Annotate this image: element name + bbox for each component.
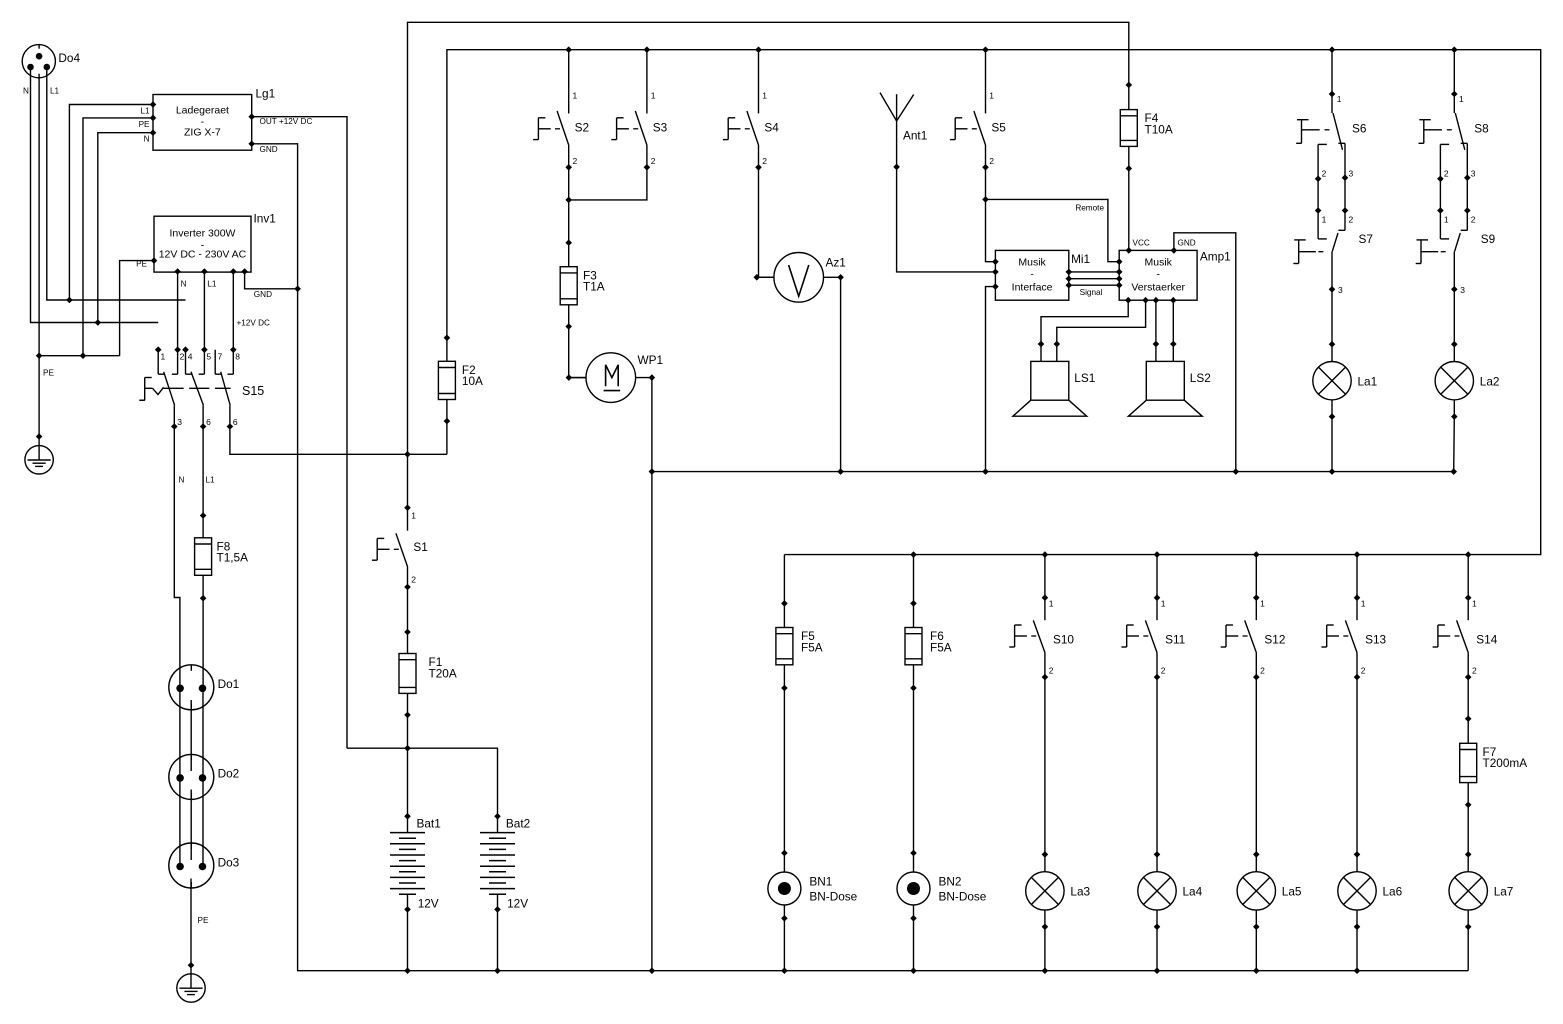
two-way switch S7 xyxy=(1293,232,1373,295)
svg-text:LS1: LS1 xyxy=(1074,371,1095,385)
svg-text:S6: S6 xyxy=(1352,122,1367,136)
svg-text:Verstaerker: Verstaerker xyxy=(1131,282,1185,294)
svg-text:2: 2 xyxy=(1471,215,1476,225)
svg-text:La1: La1 xyxy=(1358,374,1378,388)
wire PE: Do2 to Do3 xyxy=(190,790,192,861)
svg-text:La3: La3 xyxy=(1070,885,1090,899)
wire L1: S15 pin 6 down to F8 xyxy=(202,427,204,516)
svg-text:S9: S9 xyxy=(1481,232,1495,246)
svg-text:Musik: Musik xyxy=(1144,257,1172,269)
svg-text:6: 6 xyxy=(233,417,238,427)
svg-text:S4: S4 xyxy=(764,121,779,135)
svg-text:BN-Dose: BN-Dose xyxy=(939,890,987,904)
svg-text:La7: La7 xyxy=(1494,885,1514,899)
wire bus to S3 xyxy=(646,50,648,93)
wire Amp1 out 3 to LS2 left xyxy=(1153,300,1160,361)
svg-text:LS2: LS2 xyxy=(1190,371,1211,385)
svg-text:10A: 10A xyxy=(462,374,483,388)
svg-text:1: 1 xyxy=(1361,599,1366,609)
svg-text:La5: La5 xyxy=(1282,885,1302,899)
wire Inv1 L1 pin to S15 pin 5 xyxy=(203,272,205,350)
wire Lg1 GND to ground bus (bottom rail) xyxy=(252,144,1469,971)
socket Do1 xyxy=(169,665,239,710)
svg-text:PE: PE xyxy=(198,916,209,925)
svg-text:T1,5A: T1,5A xyxy=(217,551,249,565)
wire Lg1 L1 pin to L1 net xyxy=(69,105,153,301)
wire L1: Do1 through Do2 to Do3 xyxy=(202,687,204,865)
fuse F6 F5A xyxy=(905,600,952,691)
changeover switch S15 pole 2 (pins 4,5 - 6) xyxy=(182,346,211,429)
svg-text:BN-Dose: BN-Dose xyxy=(809,890,857,904)
svg-text:S15: S15 xyxy=(242,384,264,398)
voltmeter Az1 xyxy=(754,252,846,302)
svg-text:7: 7 xyxy=(218,352,223,362)
svg-text:Mi1: Mi1 xyxy=(1071,252,1090,266)
svg-text:BN2: BN2 xyxy=(939,875,962,889)
wire PE: Do4 down to earth symbol xyxy=(36,74,43,446)
svg-text:1: 1 xyxy=(1260,599,1265,609)
lamp La5 xyxy=(1237,851,1302,930)
wire +12V switched rail: F2 up, top bus, right edge down, lower bus xyxy=(447,50,1541,555)
switch S10 xyxy=(1009,594,1074,680)
svg-text:1: 1 xyxy=(989,91,994,101)
fuse F5 F5A xyxy=(776,600,823,691)
switch S11 xyxy=(1121,594,1185,680)
svg-text:PE: PE xyxy=(43,369,54,378)
wire F7 to La7 xyxy=(1467,805,1469,855)
junctions on ground bus xyxy=(404,967,1360,974)
svg-text:Amp1: Amp1 xyxy=(1200,250,1231,264)
svg-text:3: 3 xyxy=(1349,169,1354,179)
svg-text:2: 2 xyxy=(1260,666,1265,676)
label PE near earth xyxy=(43,369,54,378)
socket Do3 xyxy=(169,843,240,888)
svg-text:N: N xyxy=(181,280,187,289)
switch S2 xyxy=(533,91,589,171)
switch S3 xyxy=(611,91,667,171)
svg-text:L1: L1 xyxy=(50,86,60,95)
svg-text:1: 1 xyxy=(1459,94,1464,104)
label PE near bottom earth xyxy=(198,916,209,925)
junctions on top +12V bus xyxy=(565,46,1457,53)
water pump motor WP1 xyxy=(566,353,663,403)
battery Bat2 12V xyxy=(480,813,530,913)
svg-text:T200mA: T200mA xyxy=(1483,756,1528,770)
fuse F3 T1A xyxy=(560,239,605,329)
svg-text:N: N xyxy=(179,476,185,485)
svg-text:2: 2 xyxy=(573,156,578,166)
wire BN1 to ground bus xyxy=(783,918,785,970)
wire 0V return line with junctions xyxy=(649,468,1457,475)
wire bus to S8 xyxy=(1453,50,1455,94)
wire lower bus to S12 xyxy=(1255,555,1257,598)
svg-text:Signal: Signal xyxy=(1080,288,1103,297)
wire La5 to ground bus xyxy=(1255,927,1257,971)
svg-text:Ant1: Ant1 xyxy=(903,129,927,143)
svg-text:3: 3 xyxy=(1338,285,1343,295)
wire PE: Do1 to Do2 xyxy=(190,700,192,771)
wire to Bat1 + xyxy=(407,748,409,816)
lamp La6 xyxy=(1338,851,1403,930)
fuse F1 T20A xyxy=(399,629,457,719)
svg-text:F5A: F5A xyxy=(801,640,823,654)
wire Amp1 out 2 to LS1 right xyxy=(1054,300,1146,361)
wires Signal: Mi1 to Amp1 xyxy=(1069,269,1123,297)
wire Inv1 +12V DC pin to S15 pin 8 xyxy=(232,272,234,350)
svg-text:+12V DC: +12V DC xyxy=(237,319,271,328)
wire Inv1 N pin to S15 pin 2 xyxy=(177,272,179,350)
svg-text:2: 2 xyxy=(989,156,994,166)
svg-text:2: 2 xyxy=(1349,215,1354,225)
junctions on lower +12V bus xyxy=(910,551,1471,558)
wire BN2 to ground bus xyxy=(913,918,915,970)
svg-text:N: N xyxy=(23,86,29,95)
wire Lg1 N pin to N net xyxy=(98,133,153,323)
earth ground symbol PE (left) xyxy=(25,446,53,474)
loudspeaker LS2 xyxy=(1128,361,1210,416)
label VCC xyxy=(1133,239,1150,248)
wire F3 to motor WP1 xyxy=(569,327,587,378)
wire S5 pin 2 to Mi1, junction for Remote xyxy=(982,167,995,261)
label N wire from Do4 xyxy=(23,86,29,95)
svg-text:1: 1 xyxy=(1444,215,1449,225)
wire Amp1 GND up and down to 0V return xyxy=(1174,233,1236,472)
svg-text:4: 4 xyxy=(188,352,193,362)
wire Amp1 out 4 to LS2 right xyxy=(1170,300,1177,361)
svg-text:1: 1 xyxy=(573,91,578,101)
battery Bat1 12V xyxy=(390,813,441,913)
wire Inv1 PE pin to PE net xyxy=(120,261,154,356)
S15 manual actuator with latch and linkage xyxy=(139,378,264,401)
label L1 xyxy=(206,476,216,485)
svg-text:3: 3 xyxy=(1471,169,1476,179)
svg-text:S13: S13 xyxy=(1365,633,1386,647)
svg-text:S7: S7 xyxy=(1359,232,1373,246)
svg-text:2: 2 xyxy=(411,575,416,585)
wire bus to S5 xyxy=(985,50,987,93)
wire N: S15 pin 3 down to Do1 xyxy=(174,427,180,688)
wire battery + rail: Lg1 OUT junction to Bat1/Bat2 xyxy=(347,745,498,816)
wire S3 pin 2 to S2 branch xyxy=(569,167,647,200)
svg-text:BN1: BN1 xyxy=(809,875,832,889)
svg-text:Inv1: Inv1 xyxy=(254,212,276,226)
svg-text:1: 1 xyxy=(762,91,767,101)
svg-text:GND: GND xyxy=(260,145,278,154)
music amplifier box Amp1 xyxy=(1116,247,1231,303)
wire S4 pin 2 to voltmeter Az1 xyxy=(759,167,774,277)
lamp La2 xyxy=(1435,341,1499,420)
svg-text:6: 6 xyxy=(206,417,211,427)
svg-text:Lg1: Lg1 xyxy=(256,87,276,101)
wire bus to S6 xyxy=(1331,50,1333,94)
svg-text:2: 2 xyxy=(651,156,656,166)
wire Ant1 to Mi1 xyxy=(897,167,996,272)
wire bus to S2 xyxy=(568,50,570,93)
wire F5 to BN1 xyxy=(783,688,785,853)
svg-text:2: 2 xyxy=(180,352,185,362)
wire S11 pin 2 to La4 xyxy=(1156,677,1158,854)
svg-text:8: 8 xyxy=(235,352,240,362)
two-way switch S8 xyxy=(1419,91,1490,150)
wire lower bus to S11 xyxy=(1156,555,1158,598)
fuse F4 T10A xyxy=(1120,82,1173,172)
svg-text:Musik: Musik xyxy=(1018,257,1046,269)
wire L1: Do4 to S15 pin 4, junction with Lg1 L1 xyxy=(47,67,186,303)
mains inlet plug Do4 xyxy=(22,45,80,78)
svg-text:-: - xyxy=(1156,269,1160,281)
svg-text:S3: S3 xyxy=(653,121,668,135)
wire PE: Do3 down to bottom earth, junction xyxy=(188,879,195,974)
svg-text:T1A: T1A xyxy=(583,280,605,294)
wire La3 to ground bus xyxy=(1044,927,1046,971)
wire lower bus to F5 xyxy=(783,555,785,604)
switch S12 xyxy=(1221,594,1286,680)
svg-text:S11: S11 xyxy=(1165,633,1185,647)
wire Inv1 GND pin to GND rail, junction xyxy=(245,272,301,293)
two-way switch S6 xyxy=(1296,91,1367,150)
wire +12V node down to S1 pin 1 xyxy=(407,454,409,507)
svg-text:Bat1: Bat1 xyxy=(417,817,441,831)
wire N: Do4 to S15 pin 1, junction with Lg1 N xyxy=(31,67,159,326)
wire La4 to ground bus xyxy=(1156,927,1158,971)
svg-text:ZIG X-7: ZIG X-7 xyxy=(184,126,221,138)
wire Amp1 out 1 to LS1 left xyxy=(1038,300,1129,361)
wires S6 pins 2,3 to S7 pins 1,2 xyxy=(1315,143,1354,239)
svg-text:S12: S12 xyxy=(1264,633,1285,647)
svg-text:3: 3 xyxy=(177,417,182,427)
wire F4 to Amp1 VCC xyxy=(1128,169,1130,251)
svg-text:T20A: T20A xyxy=(429,666,457,680)
wire S10 pin 2 to La3 xyxy=(1044,677,1046,854)
socket Do2 xyxy=(169,754,239,799)
switch S1 xyxy=(372,504,428,590)
wire lower bus to S14 xyxy=(1467,555,1469,598)
svg-text:2: 2 xyxy=(1161,666,1166,676)
svg-text:2: 2 xyxy=(762,156,767,166)
wire La6 to ground bus xyxy=(1356,927,1358,971)
wire Az1 return down xyxy=(840,277,842,471)
wire bus to S4 xyxy=(758,50,760,93)
wire S2 pin 2 down to F3, junction with S3 xyxy=(565,167,572,242)
wire S12 pin 2 to La5 xyxy=(1255,677,1257,854)
svg-text:5: 5 xyxy=(206,352,211,362)
svg-text:S8: S8 xyxy=(1474,122,1489,136)
svg-text:Inverter 300W: Inverter 300W xyxy=(170,228,236,240)
label N xyxy=(179,476,185,485)
svg-text:2: 2 xyxy=(1444,169,1449,179)
wire Bat2 - to ground bus xyxy=(497,909,499,970)
fuse F7 T200mA xyxy=(1460,715,1528,808)
svg-text:Do2: Do2 xyxy=(218,767,240,781)
loudspeaker LS1 xyxy=(1013,361,1095,416)
wire PE horizontal: junction Lg1 PE and Inverter PE xyxy=(39,352,120,359)
svg-text:3: 3 xyxy=(1460,285,1465,295)
svg-text:2: 2 xyxy=(1472,666,1477,676)
svg-text:1: 1 xyxy=(411,511,416,521)
wire S7 pin 3 to La1 xyxy=(1331,289,1333,344)
12V socket BN2 BN-Dose xyxy=(897,850,987,922)
svg-text:WP1: WP1 xyxy=(638,353,664,367)
charger box Lg1 Ladegeraet ZIG X-7 xyxy=(139,87,313,155)
wire F6 to BN2 xyxy=(913,688,915,853)
wire F1 to battery + node xyxy=(407,715,409,748)
lamp La7 xyxy=(1449,851,1513,930)
svg-text:12V: 12V xyxy=(418,897,439,911)
svg-text:La2: La2 xyxy=(1480,374,1500,388)
svg-text:Do4: Do4 xyxy=(58,51,80,65)
wire S13 pin 2 to La6 xyxy=(1356,677,1358,854)
wire +12V: S15 pin 6 (pole 3) to F2 node, junction with S1/top rail xyxy=(230,427,447,458)
svg-text:VCC: VCC xyxy=(1133,239,1150,248)
wire WP1 return down to ground bus xyxy=(651,378,653,971)
svg-text:Interface: Interface xyxy=(1012,282,1053,294)
svg-text:L1: L1 xyxy=(140,107,150,116)
changeover switch S15 pole 1 (pins 1,2 - 3) xyxy=(155,346,185,429)
svg-text:S5: S5 xyxy=(991,121,1006,135)
svg-text:Bat2: Bat2 xyxy=(506,817,530,831)
wire S14 pin 2 to F7 xyxy=(1467,677,1469,719)
label GND at Amp1 xyxy=(1178,239,1196,248)
wire N: Do1 through Do2 to Do3 xyxy=(179,687,181,865)
svg-text:L1: L1 xyxy=(207,280,217,289)
wire lower bus to S13 xyxy=(1356,555,1358,598)
svg-text:L1: L1 xyxy=(206,476,216,485)
changeover switch S15 pole 3 (pins 7,8 - 6) xyxy=(215,346,240,429)
wire La7 to ground bus end xyxy=(1467,927,1469,971)
svg-text:Az1: Az1 xyxy=(826,256,846,270)
fuse F8 T1,5A xyxy=(195,512,249,601)
wire lower bus to F6 xyxy=(913,555,915,604)
svg-text:F5A: F5A xyxy=(930,640,952,654)
lamp La4 xyxy=(1138,851,1203,930)
svg-text:12V: 12V xyxy=(507,897,528,911)
switch S14 xyxy=(1433,594,1498,680)
svg-text:PE: PE xyxy=(139,120,150,129)
svg-text:S14: S14 xyxy=(1476,633,1497,647)
svg-text:1: 1 xyxy=(1049,599,1054,609)
svg-text:N: N xyxy=(144,135,150,144)
12V socket BN1 BN-Dose xyxy=(768,850,858,922)
wires S8 pins 2,3 to S9 pins 1,2 xyxy=(1437,143,1476,239)
svg-text:Ladegeraet: Ladegeraet xyxy=(176,105,229,117)
two-way switch S9 xyxy=(1416,232,1496,295)
svg-text:1: 1 xyxy=(1322,215,1327,225)
lamp La1 xyxy=(1313,341,1377,420)
svg-text:1: 1 xyxy=(1337,94,1342,104)
svg-text:12V DC - 230V AC: 12V DC - 230V AC xyxy=(159,249,247,261)
svg-text:GND: GND xyxy=(1178,239,1196,248)
svg-text:OUT +12V DC: OUT +12V DC xyxy=(260,117,313,126)
svg-text:2: 2 xyxy=(1049,666,1054,676)
svg-text:La6: La6 xyxy=(1383,885,1403,899)
music interface box Mi1 xyxy=(992,250,1090,300)
svg-text:GND: GND xyxy=(254,290,272,299)
antenna Ant1 xyxy=(880,93,927,171)
wire Bat1 - to ground bus xyxy=(407,909,409,970)
wire La1 to 0V return xyxy=(1331,417,1333,472)
fuse F2 10A xyxy=(438,335,483,425)
svg-text:Do1: Do1 xyxy=(218,677,240,691)
wire +12V unswitched rail: from S1 node up, across top, down to F4 xyxy=(408,22,1129,454)
svg-text:La4: La4 xyxy=(1183,885,1203,899)
svg-text:-: - xyxy=(1030,269,1034,281)
wire S1 pin 2 to F1 xyxy=(407,587,409,632)
lamp La3 xyxy=(1026,851,1091,930)
svg-text:T10A: T10A xyxy=(1145,122,1173,136)
wire Remote: S5 branch to Amp1 xyxy=(986,199,1120,261)
wire Lg1 PE pin to PE net xyxy=(83,118,153,356)
svg-text:S10: S10 xyxy=(1053,633,1074,647)
switch S4 xyxy=(723,91,779,171)
wire S9 pin 3 to La2 xyxy=(1453,289,1455,344)
svg-text:S1: S1 xyxy=(413,540,427,554)
svg-text:Remote: Remote xyxy=(1075,204,1104,213)
wire Lg1 OUT +12V DC down to battery node xyxy=(252,117,347,749)
svg-text:2: 2 xyxy=(1361,666,1366,676)
wire lower bus to S10 xyxy=(1044,555,1046,598)
svg-text:1: 1 xyxy=(161,352,166,362)
earth ground symbol PE (bottom) xyxy=(177,974,205,1002)
svg-text:S2: S2 xyxy=(575,121,589,135)
inverter box Inv1 300W 12V DC - 230V AC xyxy=(136,212,276,328)
wire Mi1 ground pin down to 0V return xyxy=(986,287,996,472)
wire F2 bottom to +12V node xyxy=(446,421,448,454)
wire La2 to 0V return end xyxy=(1453,417,1456,472)
svg-text:2: 2 xyxy=(1322,169,1327,179)
switch S5 xyxy=(950,91,1006,171)
label L1 wire from Do4 xyxy=(50,86,60,95)
svg-text:Do3: Do3 xyxy=(218,855,240,869)
svg-text:1: 1 xyxy=(1161,599,1166,609)
label Remote xyxy=(1075,204,1104,213)
svg-text:1: 1 xyxy=(651,91,656,101)
svg-text:1: 1 xyxy=(1472,599,1477,609)
switch S13 xyxy=(1321,594,1386,680)
wire L1: F8 down to Do1 xyxy=(202,598,204,687)
